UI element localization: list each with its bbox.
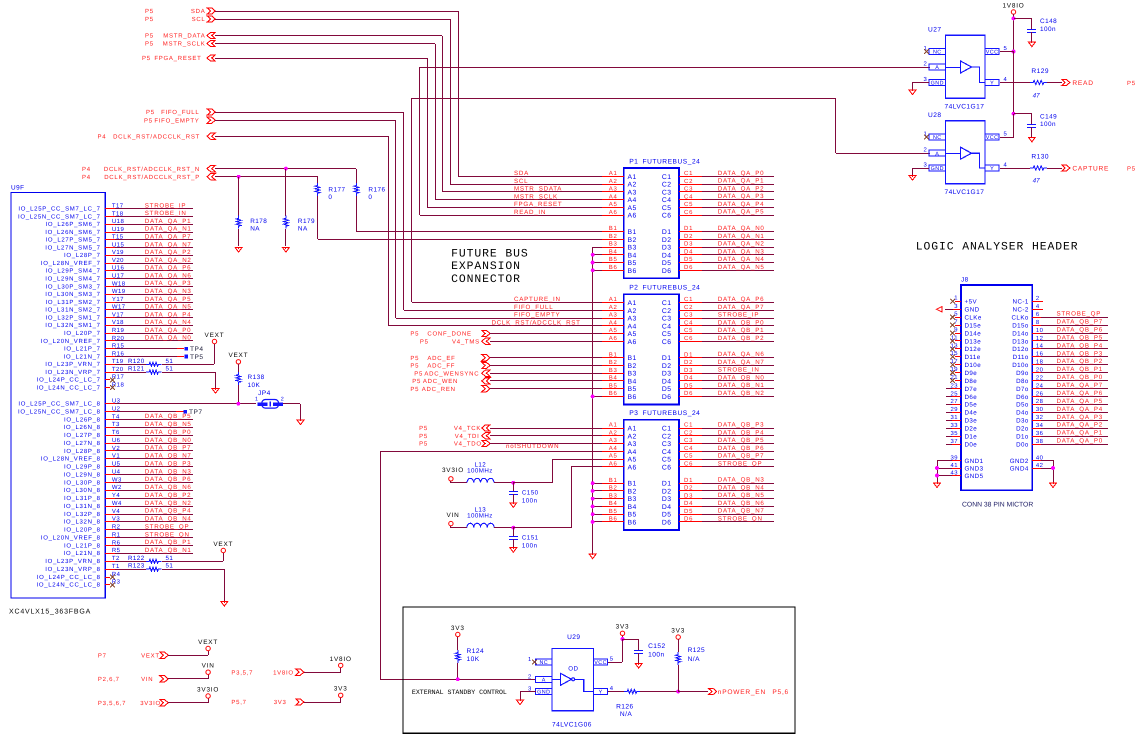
svg-text:STROBE_IP: STROBE_IP (718, 312, 759, 319)
svg-text:IO_L23N_VRP_7: IO_L23N_VRP_7 (45, 369, 100, 376)
svg-text:DATA_QB_N6: DATA_QB_N6 (718, 500, 765, 507)
svg-text:Y17: Y17 (112, 296, 124, 303)
svg-text:IO_L25N_CC_SM7_LC_7: IO_L25N_CC_SM7_LC_7 (18, 213, 101, 220)
svg-text:2: 2 (281, 396, 284, 402)
svg-text:B4: B4 (628, 504, 637, 511)
svg-text:D6o: D6o (1016, 394, 1029, 401)
svg-text:IO_L21P_8: IO_L21P_8 (64, 542, 101, 549)
svg-text:SDA: SDA (514, 170, 529, 177)
svg-text:P5: P5 (142, 55, 151, 62)
svg-text:2: 2 (528, 673, 532, 680)
svg-text:C6: C6 (662, 213, 672, 220)
svg-text:B1: B1 (609, 225, 618, 232)
svg-text:P5: P5 (145, 41, 154, 48)
svg-text:N/A: N/A (620, 711, 632, 718)
svg-text:B3: B3 (609, 367, 618, 374)
svg-text:D14o: D14o (1012, 330, 1029, 337)
svg-text:DATA_QB_N7: DATA_QB_N7 (145, 453, 192, 460)
svg-text:nPOWER_EN: nPOWER_EN (718, 689, 766, 696)
svg-text:A5: A5 (609, 453, 618, 460)
svg-text:A: A (542, 678, 546, 684)
svg-text:IO_L24N_CC_LC_7: IO_L24N_CC_LC_7 (36, 384, 100, 391)
svg-text:ADC_WEN: ADC_WEN (423, 378, 458, 385)
svg-text:D1: D1 (662, 355, 672, 362)
svg-text:IO_L32P_8: IO_L32P_8 (64, 511, 101, 518)
svg-text:Y: Y (599, 690, 603, 696)
svg-text:B3: B3 (609, 241, 618, 248)
svg-text:MSTR_SCLK: MSTR_SCLK (163, 41, 206, 48)
svg-text:100n: 100n (522, 498, 538, 505)
svg-text:DATA_QA_P6: DATA_QA_P6 (145, 265, 191, 272)
svg-text:8: 8 (1036, 319, 1040, 326)
svg-text:P3: P3 (629, 410, 638, 417)
svg-text:A3: A3 (628, 441, 637, 448)
svg-text:51: 51 (166, 555, 174, 562)
svg-text:VIN: VIN (141, 676, 153, 683)
svg-text:ADC_WENSYNC: ADC_WENSYNC (424, 370, 479, 377)
svg-text:VCC: VCC (986, 135, 999, 141)
svg-text:C1: C1 (662, 174, 672, 181)
svg-text:DATA_QB_P2: DATA_QB_P2 (1057, 358, 1103, 365)
svg-text:C5: C5 (662, 457, 672, 464)
svg-text:DATA_QA_P7: DATA_QA_P7 (1057, 382, 1103, 389)
svg-text:P5: P5 (145, 8, 154, 15)
svg-text:STROBE_IN: STROBE_IN (718, 367, 760, 374)
svg-text:NA: NA (298, 226, 308, 233)
svg-text:DATA_QB_P7: DATA_QB_P7 (145, 445, 191, 452)
svg-text:C3: C3 (662, 189, 672, 196)
svg-text:P3,5,7: P3,5,7 (231, 669, 253, 676)
svg-text:B3: B3 (628, 371, 637, 378)
svg-text:D5: D5 (662, 260, 672, 267)
svg-text:C152: C152 (648, 643, 666, 650)
svg-text:A5: A5 (628, 331, 637, 338)
svg-text:A6: A6 (628, 213, 637, 220)
svg-text:NA: NA (250, 226, 260, 233)
svg-text:IO_L25N_CC_SM7_LC_8: IO_L25N_CC_SM7_LC_8 (18, 408, 101, 415)
svg-text:DATA_QA_P3: DATA_QA_P3 (145, 280, 191, 287)
svg-text:R123: R123 (128, 563, 145, 570)
svg-text:MSTR_DATA: MSTR_DATA (163, 33, 205, 40)
svg-text:D2: D2 (662, 363, 672, 370)
svg-text:DATA_QA_N0: DATA_QA_N0 (718, 225, 765, 232)
svg-text:GND3: GND3 (965, 465, 984, 472)
svg-text:IO_L20N_VREF_8: IO_L20N_VREF_8 (41, 534, 101, 541)
svg-text:D2: D2 (662, 488, 672, 495)
svg-text:D3: D3 (662, 245, 672, 252)
svg-text:P5: P5 (1127, 166, 1136, 173)
svg-text:D8o: D8o (1016, 378, 1029, 385)
svg-text:DATA_QB_P4: DATA_QB_P4 (1057, 342, 1103, 349)
svg-text:A1: A1 (628, 300, 637, 307)
svg-text:D13e: D13e (965, 338, 982, 345)
svg-text:DATA_QB_P2: DATA_QB_P2 (145, 492, 191, 499)
svg-text:FUTUREBUS_24: FUTUREBUS_24 (643, 285, 701, 292)
svg-text:P5: P5 (419, 425, 428, 432)
svg-text:IO_L20P_7: IO_L20P_7 (64, 330, 101, 337)
svg-text:A5: A5 (609, 201, 618, 208)
svg-text:B2: B2 (609, 485, 618, 492)
svg-text:13: 13 (951, 342, 959, 349)
svg-text:B6: B6 (628, 519, 637, 526)
svg-text:IO_L27N_8: IO_L27N_8 (64, 440, 101, 447)
svg-text:D9o: D9o (1016, 370, 1029, 377)
svg-text:4: 4 (1004, 162, 1008, 169)
svg-text:CONF_DONE: CONF_DONE (427, 331, 471, 338)
svg-text:DCLK_RST/ADCCLK_RST: DCLK_RST/ADCCLK_RST (492, 320, 581, 327)
svg-text:IO_L31P_SM2_7: IO_L31P_SM2_7 (46, 299, 101, 306)
svg-text:DATA_QB_N1: DATA_QB_N1 (145, 547, 192, 554)
svg-text:1: 1 (255, 396, 258, 402)
svg-text:IO_L30P_8: IO_L30P_8 (64, 479, 101, 486)
svg-text:C2: C2 (662, 182, 672, 189)
svg-text:DATA_QB_P0: DATA_QB_P0 (145, 429, 191, 436)
svg-text:D6: D6 (662, 268, 672, 275)
svg-text:D4: D4 (662, 504, 672, 511)
svg-text:DATA_QB_N0: DATA_QB_N0 (145, 437, 192, 444)
svg-text:A3: A3 (628, 316, 637, 323)
svg-text:IO_L31N_SM2_7: IO_L31N_SM2_7 (45, 307, 100, 314)
svg-text:C5: C5 (684, 201, 693, 208)
svg-text:DCLK_RST/ADCCLK_RST_N: DCLK_RST/ADCCLK_RST_N (104, 166, 200, 173)
svg-text:IO_L23P_VRN_8: IO_L23P_VRN_8 (45, 558, 100, 565)
svg-text:32: 32 (1036, 414, 1043, 421)
svg-text:D5o: D5o (1016, 402, 1029, 409)
svg-text:C149: C149 (1040, 113, 1057, 120)
svg-text:47: 47 (1033, 93, 1041, 100)
svg-text:DATA_QB_P3: DATA_QB_P3 (718, 422, 764, 429)
svg-text:J8: J8 (961, 277, 969, 284)
svg-text:FIFO_EMPTY: FIFO_EMPTY (514, 312, 560, 319)
svg-text:P5: P5 (410, 331, 419, 338)
svg-text:B1: B1 (628, 229, 637, 236)
svg-text:IO_L21N_7: IO_L21N_7 (64, 353, 101, 360)
svg-text:C2: C2 (662, 308, 672, 315)
svg-text:DATA_QB_P5: DATA_QB_P5 (145, 413, 191, 420)
svg-text:CAPTURE_IN: CAPTURE_IN (514, 296, 561, 303)
svg-text:B2: B2 (628, 237, 637, 244)
svg-text:C6: C6 (684, 460, 693, 467)
svg-text:GND: GND (931, 166, 944, 172)
svg-text:notSHUTDOWN: notSHUTDOWN (506, 443, 559, 450)
svg-text:DATA_QA_P1: DATA_QA_P1 (145, 218, 191, 225)
svg-text:23: 23 (951, 382, 959, 389)
svg-text:IO_L27N_SM5_7: IO_L27N_SM5_7 (45, 244, 100, 251)
svg-text:DATA_QA_P4: DATA_QA_P4 (145, 311, 191, 318)
svg-text:A1: A1 (609, 170, 618, 177)
svg-text:B5: B5 (609, 256, 618, 263)
svg-text:IO_L32P_SM1_7: IO_L32P_SM1_7 (46, 314, 101, 321)
svg-text:DATA_QA_P0: DATA_QA_P0 (718, 170, 764, 177)
svg-text:DATA_QA_P1: DATA_QA_P1 (1057, 430, 1103, 437)
svg-text:D6: D6 (684, 516, 693, 523)
svg-text:READ_IN: READ_IN (514, 209, 546, 216)
svg-text:D3o: D3o (1016, 418, 1029, 425)
svg-text:42: 42 (1036, 462, 1043, 469)
svg-text:B1: B1 (609, 477, 618, 484)
svg-text:C4: C4 (684, 193, 693, 200)
svg-text:CAPTURE: CAPTURE (1072, 166, 1109, 173)
svg-text:D2o: D2o (1016, 425, 1029, 432)
svg-text:P4: P4 (82, 174, 91, 181)
svg-text:A5: A5 (609, 327, 618, 334)
svg-text:A6: A6 (609, 460, 618, 467)
svg-text:21: 21 (951, 374, 958, 381)
svg-text:D8e: D8e (965, 378, 978, 385)
svg-text:DATA_QA_N3: DATA_QA_N3 (718, 248, 765, 255)
svg-text:R120: R120 (128, 358, 145, 365)
svg-text:D0o: D0o (1016, 441, 1029, 448)
svg-text:B3: B3 (628, 496, 637, 503)
svg-text:B2: B2 (628, 488, 637, 495)
svg-text:IO_L26N_8: IO_L26N_8 (64, 424, 101, 431)
svg-text:B5: B5 (628, 512, 637, 519)
svg-text:C6: C6 (684, 209, 693, 216)
svg-text:T20: T20 (112, 366, 124, 373)
svg-text:24: 24 (1036, 382, 1044, 389)
svg-text:A: A (935, 65, 939, 71)
svg-text:IO_L32N_8: IO_L32N_8 (64, 519, 101, 526)
svg-text:IO_L20N_VREF_7: IO_L20N_VREF_7 (41, 338, 101, 345)
svg-text:LOGIC ANALYSER HEADER: LOGIC ANALYSER HEADER (916, 241, 1079, 253)
svg-text:D1o: D1o (1016, 433, 1029, 440)
svg-text:D6: D6 (684, 264, 693, 271)
svg-text:B4: B4 (609, 500, 618, 507)
svg-text:P5: P5 (145, 33, 154, 40)
svg-text:5: 5 (954, 311, 958, 318)
svg-text:3V3IO: 3V3IO (140, 700, 161, 707)
svg-text:D5: D5 (662, 386, 672, 393)
svg-text:P4: P4 (82, 166, 91, 173)
svg-text:C1: C1 (662, 426, 672, 433)
svg-text:C3: C3 (662, 316, 672, 323)
svg-text:DATA_QB_P0: DATA_QB_P0 (1057, 374, 1103, 381)
svg-text:TP5: TP5 (190, 354, 203, 361)
svg-text:DATA_QA_P6: DATA_QA_P6 (1057, 390, 1103, 397)
svg-text:C5: C5 (662, 331, 672, 338)
svg-text:R179: R179 (298, 218, 315, 225)
svg-text:D3: D3 (684, 241, 693, 248)
svg-text:NC-1: NC-1 (1013, 299, 1029, 306)
svg-text:XC4VLX15_363FBGA: XC4VLX15_363FBGA (9, 609, 91, 616)
svg-text:100n: 100n (1040, 121, 1056, 128)
svg-text:DATA_QB_N3: DATA_QB_N3 (145, 468, 192, 475)
svg-text:DATA_QB_N5: DATA_QB_N5 (718, 492, 765, 499)
svg-text:V4_TMS: V4_TMS (452, 338, 480, 345)
svg-text:IO_L26P_SM6_7: IO_L26P_SM6_7 (46, 221, 101, 228)
svg-text:A2: A2 (609, 304, 618, 311)
svg-text:1V8IO: 1V8IO (273, 669, 294, 676)
svg-text:IO_L29P_8: IO_L29P_8 (64, 464, 101, 471)
svg-text:D4e: D4e (965, 410, 978, 417)
svg-text:74LVC1G06: 74LVC1G06 (552, 722, 592, 729)
svg-text:10K: 10K (467, 656, 480, 663)
svg-text:FUTUREBUS_24: FUTUREBUS_24 (643, 159, 701, 166)
svg-text:B4: B4 (628, 378, 637, 385)
svg-text:GND: GND (931, 81, 944, 87)
svg-text:IO_L28P_8: IO_L28P_8 (64, 448, 101, 455)
svg-text:DATA_QA_N4: DATA_QA_N4 (718, 256, 765, 263)
svg-text:2: 2 (1036, 295, 1040, 302)
svg-text:17: 17 (951, 358, 958, 365)
svg-text:C3: C3 (684, 312, 693, 319)
svg-text:1V8IO: 1V8IO (1002, 2, 1024, 9)
svg-text:D4: D4 (684, 248, 693, 255)
svg-text:P5: P5 (145, 16, 154, 23)
svg-text:P4: P4 (98, 133, 107, 140)
svg-text:3: 3 (954, 303, 958, 310)
svg-text:C1: C1 (684, 296, 693, 303)
svg-text:DATA_QA_N1: DATA_QA_N1 (718, 233, 765, 240)
svg-text:MSTR_SCLK: MSTR_SCLK (514, 193, 558, 200)
svg-text:3V3: 3V3 (334, 686, 348, 693)
svg-text:DATA_QB_P0: DATA_QB_P0 (718, 319, 764, 326)
svg-text:EXPANSION: EXPANSION (451, 261, 521, 273)
svg-text:R138: R138 (248, 374, 265, 381)
svg-text:14: 14 (1036, 343, 1044, 350)
svg-text:A1: A1 (609, 422, 618, 429)
svg-text:29: 29 (951, 406, 958, 413)
svg-text:DATA_QB_N7: DATA_QB_N7 (718, 508, 765, 515)
svg-text:DATA_QB_P3: DATA_QB_P3 (1057, 350, 1103, 357)
svg-text:A1: A1 (628, 174, 637, 181)
svg-text:DATA_QB_N4: DATA_QB_N4 (718, 484, 765, 491)
svg-text:36: 36 (1036, 430, 1044, 437)
svg-text:D7o: D7o (1016, 386, 1029, 393)
svg-text:N/A: N/A (688, 656, 700, 663)
svg-text:P5: P5 (144, 117, 153, 124)
svg-text:VEXT: VEXT (198, 639, 218, 646)
svg-text:100n: 100n (648, 651, 664, 658)
svg-text:47: 47 (1033, 178, 1041, 185)
svg-text:ADC_EF: ADC_EF (427, 355, 455, 362)
svg-text:IO_L28P_7: IO_L28P_7 (64, 252, 101, 259)
svg-text:3V3IO: 3V3IO (442, 467, 464, 474)
svg-text:C4: C4 (662, 449, 672, 456)
svg-text:GND5: GND5 (965, 473, 984, 480)
svg-text:U28: U28 (928, 112, 941, 119)
svg-text:STROBE_QN: STROBE_QN (145, 531, 190, 538)
svg-text:C4: C4 (662, 197, 672, 204)
svg-text:D10o: D10o (1012, 362, 1029, 369)
svg-text:R126: R126 (616, 704, 634, 711)
svg-text:IO_L29N_SM4_7: IO_L29N_SM4_7 (45, 276, 100, 283)
svg-text:D13o: D13o (1012, 338, 1029, 345)
svg-text:IO_L20P_8: IO_L20P_8 (64, 527, 101, 534)
svg-text:11: 11 (951, 334, 958, 341)
svg-text:DATA_QB_P2: DATA_QB_P2 (718, 335, 764, 342)
svg-text:DATA_QA_P2: DATA_QA_P2 (1057, 422, 1103, 429)
svg-text:D11e: D11e (965, 354, 981, 361)
svg-text:A5: A5 (628, 205, 637, 212)
svg-text:DATA_QB_P3: DATA_QB_P3 (145, 460, 191, 467)
svg-text:DATA_QA_P0: DATA_QA_P0 (145, 327, 191, 334)
svg-text:39: 39 (951, 454, 958, 461)
svg-text:6: 6 (1036, 311, 1040, 318)
svg-text:D2: D2 (684, 233, 693, 240)
svg-text:A1: A1 (609, 296, 618, 303)
svg-text:B2: B2 (609, 233, 618, 240)
svg-text:SCL: SCL (514, 178, 528, 185)
svg-text:FPGA_RESET: FPGA_RESET (514, 201, 562, 208)
svg-text:B6: B6 (628, 268, 637, 275)
svg-text:37: 37 (951, 438, 958, 445)
svg-text:P5: P5 (419, 433, 428, 440)
svg-text:DATA_QA_N7: DATA_QA_N7 (145, 241, 192, 248)
svg-text:3V3: 3V3 (616, 624, 630, 631)
svg-text:A1: A1 (628, 426, 637, 433)
svg-text:IO_L23P_VRN_7: IO_L23P_VRN_7 (45, 361, 100, 368)
svg-text:A6: A6 (609, 209, 618, 216)
svg-text:2: 2 (924, 61, 928, 68)
svg-text:READ: READ (1072, 80, 1093, 87)
svg-text:VEXT: VEXT (205, 332, 225, 339)
svg-text:51: 51 (166, 358, 174, 365)
svg-text:B6: B6 (609, 264, 618, 271)
svg-text:P2: P2 (629, 285, 638, 292)
svg-text:D1: D1 (662, 229, 672, 236)
svg-text:12: 12 (1036, 335, 1043, 342)
svg-text:0: 0 (328, 194, 332, 201)
svg-text:NC: NC (933, 135, 942, 141)
svg-text:A3: A3 (609, 312, 618, 319)
svg-text:D6e: D6e (965, 394, 978, 401)
svg-text:OD: OD (568, 666, 578, 673)
svg-text:20: 20 (1036, 366, 1044, 373)
svg-text:CONN 38 PIN MICTOR: CONN 38 PIN MICTOR (962, 502, 1033, 509)
svg-text:FIFO_EMPTY: FIFO_EMPTY (154, 117, 199, 124)
svg-text:R17: R17 (112, 374, 125, 381)
svg-text:3V3: 3V3 (274, 699, 287, 706)
svg-text:A3: A3 (609, 437, 618, 444)
svg-text:IO_L23N_VRP_8: IO_L23N_VRP_8 (45, 566, 100, 573)
svg-text:P5: P5 (412, 378, 421, 385)
svg-text:R177: R177 (328, 187, 345, 194)
svg-text:1V8IO: 1V8IO (330, 656, 352, 663)
svg-text:5: 5 (1004, 131, 1008, 138)
svg-text:C4: C4 (684, 319, 693, 326)
svg-text:MSTR_SDATA: MSTR_SDATA (514, 186, 562, 193)
svg-text:74LVC1G17: 74LVC1G17 (945, 189, 985, 196)
svg-text:IO_L24N_CC_LC_8: IO_L24N_CC_LC_8 (36, 582, 100, 589)
svg-text:D7e: D7e (965, 386, 978, 393)
svg-text:C5: C5 (684, 327, 693, 334)
svg-text:51: 51 (166, 366, 174, 373)
svg-text:4: 4 (1036, 303, 1040, 310)
svg-text:C3: C3 (662, 441, 672, 448)
svg-text:C151: C151 (522, 535, 539, 542)
svg-text:IO_L32N_SM1_7: IO_L32N_SM1_7 (45, 322, 100, 329)
svg-text:IO_L30N_8: IO_L30N_8 (64, 487, 101, 494)
svg-text:100n: 100n (522, 542, 538, 549)
svg-text:D3: D3 (662, 496, 672, 503)
svg-text:D12e: D12e (965, 346, 982, 353)
svg-text:DATA_QA_N0: DATA_QA_N0 (145, 335, 192, 342)
svg-text:DATA_QA_N6: DATA_QA_N6 (145, 272, 192, 279)
svg-text:B6: B6 (628, 394, 637, 401)
svg-text:100MHz: 100MHz (467, 513, 493, 520)
svg-text:D4o: D4o (1016, 410, 1029, 417)
svg-text:C2: C2 (662, 433, 672, 440)
svg-text:16: 16 (1036, 351, 1044, 358)
svg-text:C2: C2 (684, 429, 693, 436)
svg-text:D14e: D14e (965, 330, 982, 337)
svg-text:D5: D5 (684, 382, 693, 389)
svg-text:A4: A4 (609, 319, 618, 326)
svg-text:DATA_QA_N2: DATA_QA_N2 (145, 257, 192, 264)
svg-text:B1: B1 (609, 351, 618, 358)
svg-text:DATA_QA_P7: DATA_QA_P7 (145, 234, 191, 241)
